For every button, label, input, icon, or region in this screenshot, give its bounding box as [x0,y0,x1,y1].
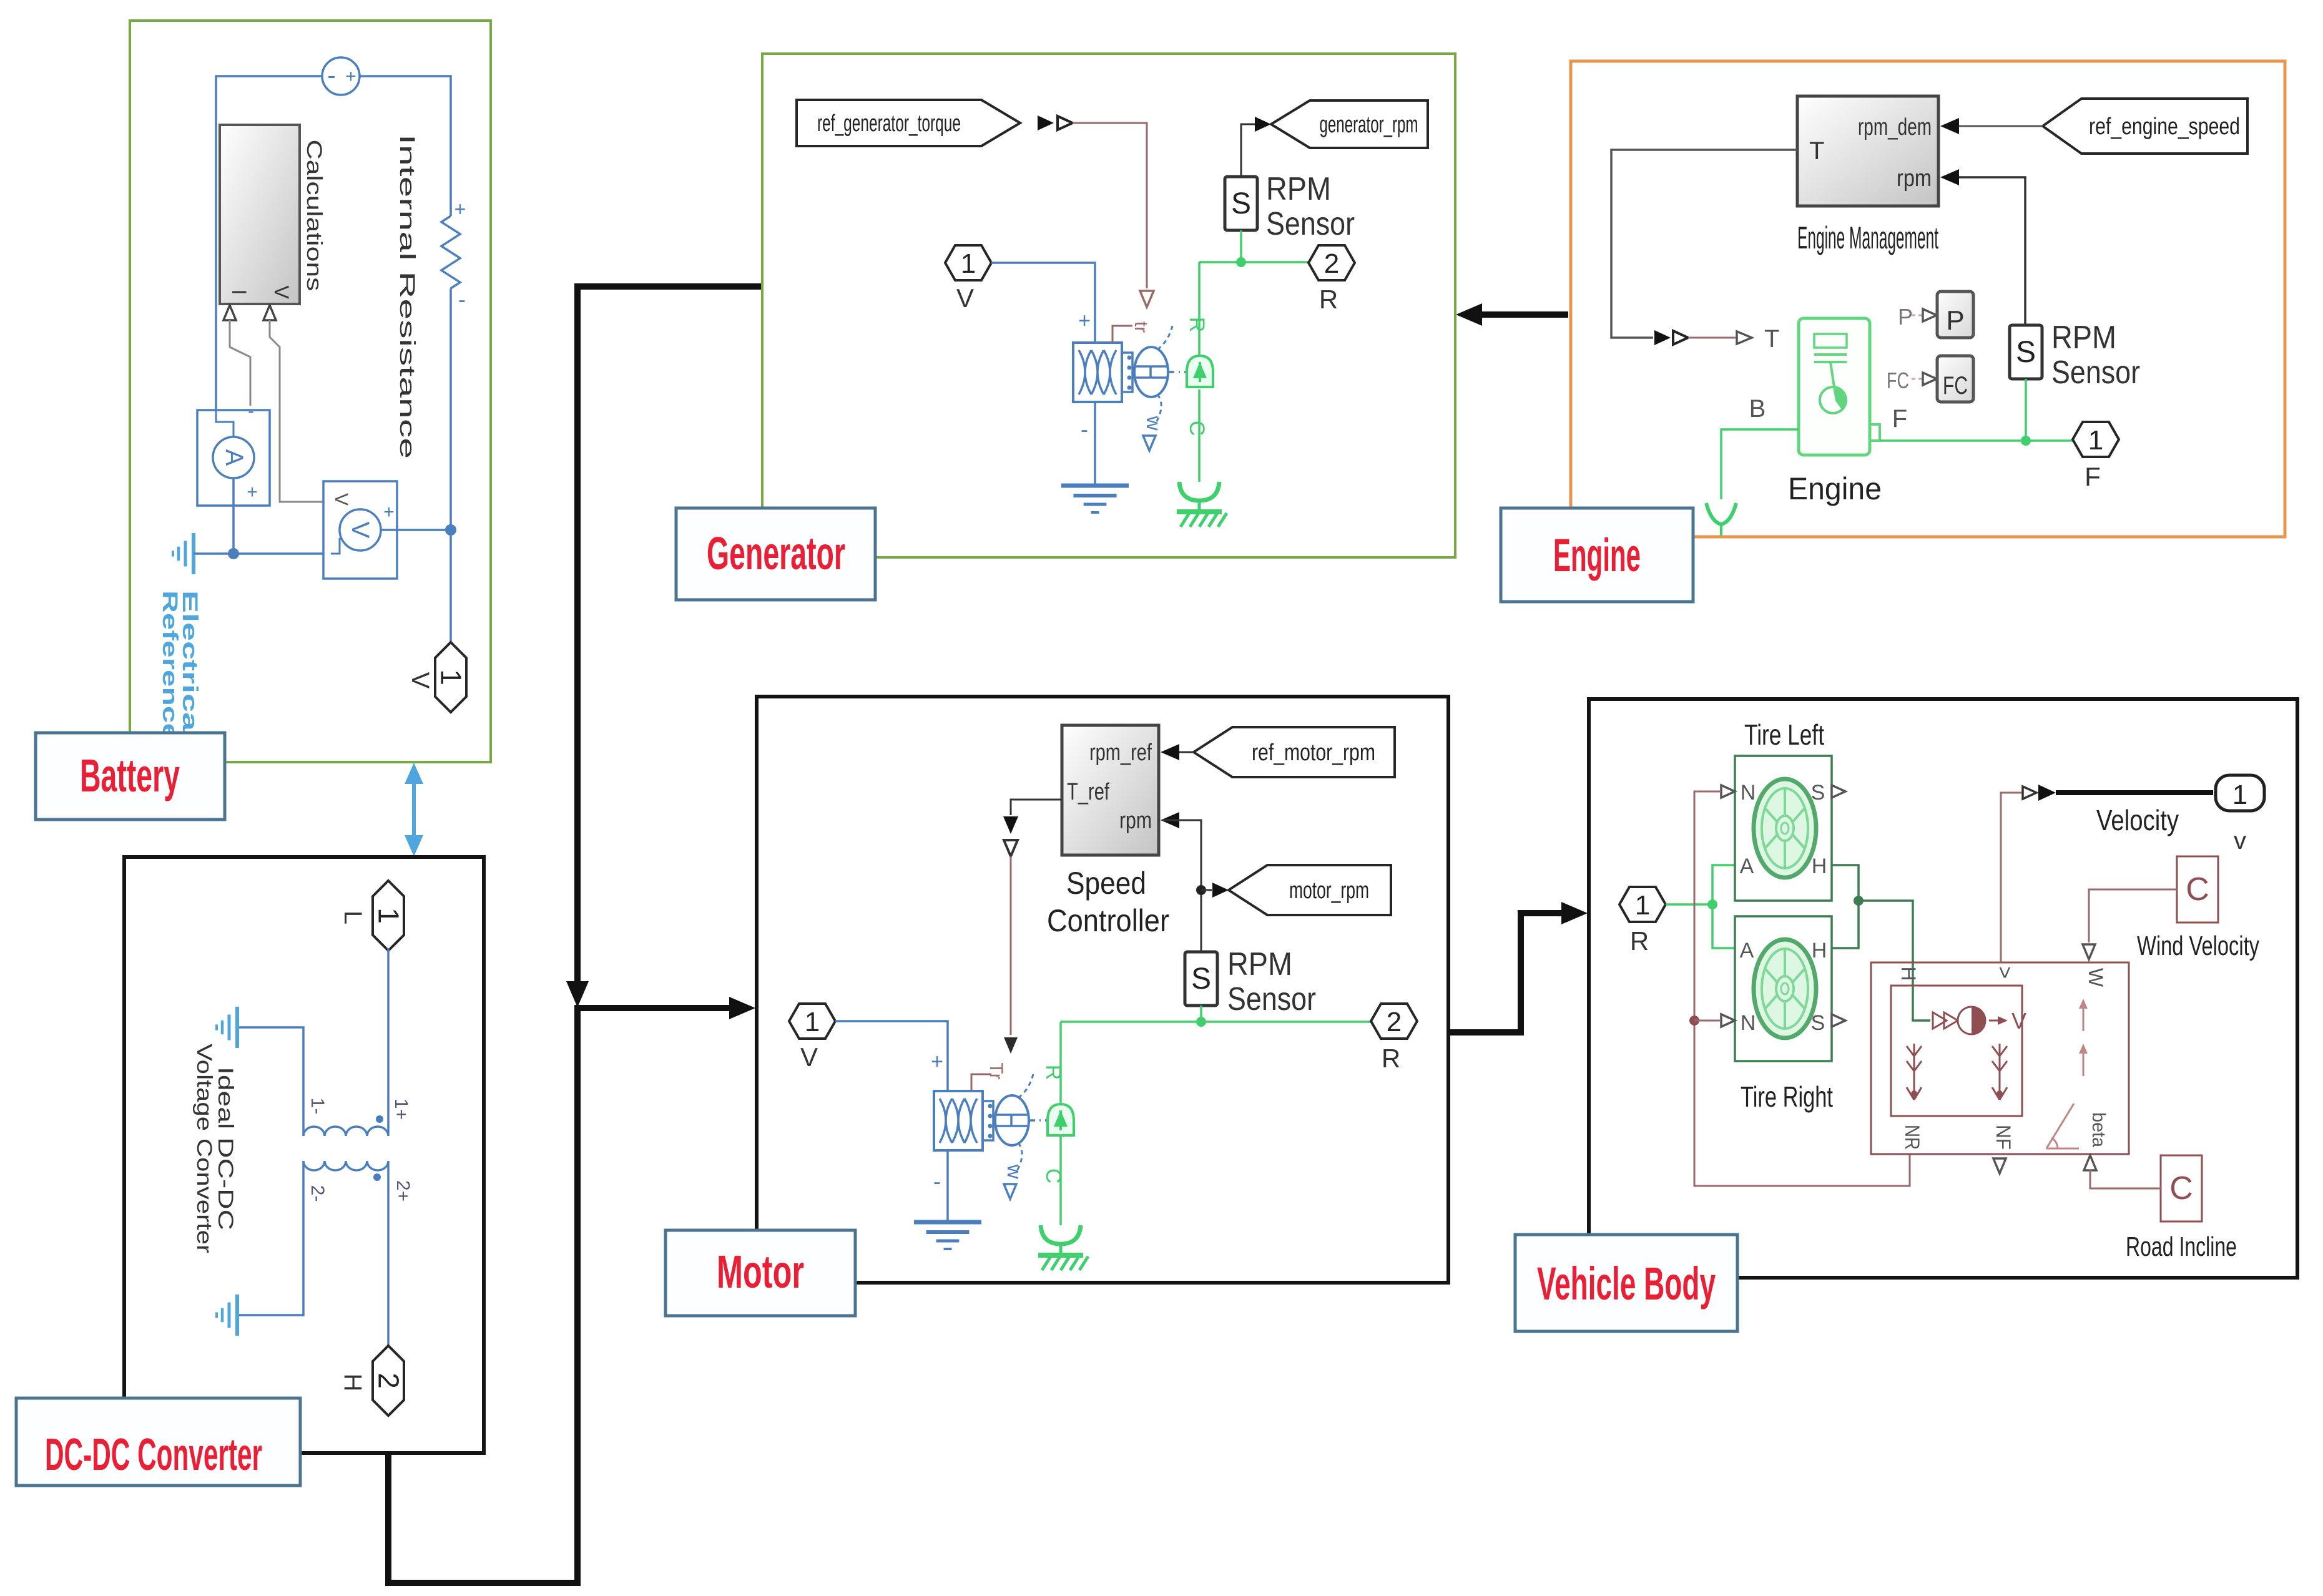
svg-text:S: S [1231,187,1251,220]
port triangle W [2083,944,2095,959]
svg-text:1-: 1- [307,1098,328,1115]
svg-text:Wind Velocity: Wind Velocity [2137,931,2259,961]
svg-text:V: V [331,493,351,506]
port triangles Tire Right [1721,1014,1735,1027]
svg-text:Tire Right: Tire Right [1741,1080,1833,1113]
svg-text:motor_rpm: motor_rpm [1289,878,1369,904]
svg-text:Generator: Generator [707,527,845,579]
wire: battery source left to A-sensor [216,76,323,410]
wire: torque reference to machine (physical) [1010,856,1012,1035]
block: Tire Left [1735,756,1832,901]
wire: Motor to Vehicle Body (thick) [1450,913,1568,1032]
block: Calculations (SOC calculations) [220,125,300,304]
input arrow rpm [1161,812,1179,828]
junction at Tire Right N [1689,1016,1699,1026]
subsystem box: DC-DC Converter [124,857,484,1453]
svg-text:1: 1 [961,248,976,279]
port 2 R of Generator [1309,245,1355,280]
svg-text:P: P [1898,304,1913,330]
subsystem box: Motor [757,697,1448,1283]
svg-text:+: + [931,1050,943,1074]
svg-text:-: - [933,1168,941,1194]
svg-text:Voltage Converter: Voltage Converter [192,1044,216,1253]
junction on F bus [2021,436,2031,446]
subsystem box: Engine [1571,61,2285,537]
wire: velocity output from body V port [2001,793,2025,962]
input arrow rpm [1940,169,1959,185]
source: Road Incline C block [2161,1155,2202,1221]
wire: machine - to ground [1094,402,1096,486]
wire: S sensor to green bus (motor) [1200,1006,1202,1022]
wire: V measurement to Calculations [270,320,329,502]
tag: ref_generator_torque [797,100,1020,146]
label box: Engine [1501,508,1693,602]
svg-text:Tire Left: Tire Left [1744,718,1824,751]
wire: torque ref elbow into machine (motor) [971,1074,991,1091]
port triangle NF (unconnected) [1993,1158,2006,1173]
svg-text:FC: FC [1887,368,1909,393]
source: Wind Velocity C block [2177,856,2218,923]
wire: ref_engine_speed to rpm_dem [1959,125,2043,127]
V arrow inside body block [1989,1020,2003,1022]
junction on green bus (generator) [1236,257,1246,267]
port 1 V of Motor [789,1004,835,1039]
label box: Generator [676,508,875,600]
svg-text:-: - [458,286,466,312]
svg-text:rpm_ref: rpm_ref [1089,740,1152,766]
outport 1 v (Velocity) [2216,775,2264,811]
transformer: Ideal DC-DC Voltage Converter winding 1 [303,1127,388,1136]
port F bracket of engine block [1870,424,1880,441]
svg-text:DC-DC Converter: DC-DC Converter [45,1430,262,1480]
junction dot on rpm wire [1196,885,1206,895]
svg-text:N: N [1741,1011,1756,1035]
wire: winding1- to upper ground [237,1027,303,1136]
beta angle symbol [2046,1148,2079,1150]
svg-text:R: R [1382,1044,1400,1073]
svg-text:1: 1 [435,669,467,685]
svg-text:2: 2 [1387,1007,1402,1037]
ammeter block A (current sensor) [197,410,270,506]
svg-text:1: 1 [372,908,405,924]
svg-text:ref_engine_speed: ref_engine_speed [2089,114,2240,140]
svg-text:C: C [1185,421,1209,436]
block: Engine Management [1797,96,1938,206]
svg-text:Reference: Reference [158,590,182,740]
green bus: machine to port 2 R (motor) [1061,1021,1371,1023]
wire: T loop physical segment [1688,337,1736,339]
svg-text:Controller: Controller [1047,903,1169,938]
svg-text:Engine: Engine [1553,529,1641,581]
svg-text:Speed: Speed [1066,866,1146,901]
sensor: RPM Sensor S block (generator) [1225,177,1257,230]
wire: road incline to beta port [2090,1170,2161,1188]
wire: rotor port to green bus [1198,262,1201,356]
input arrow rpm_dem [1940,118,1959,134]
wire: S sensor to F shaft bus [2025,379,2027,441]
subsystem box: Generator [762,54,1455,557]
wire: wind velocity to W port [2089,889,2177,942]
svg-text:RPM: RPM [1266,171,1331,207]
label box: Motor [665,1230,855,1316]
block: Engine (piston icon) [1799,318,1870,455]
wire: Engine Management T output loop [1611,150,1797,338]
ground: DC-DC upper reference [235,1007,239,1048]
wire: rpm sensor to generator_rpm tag [1241,124,1255,177]
svg-text:Velocity: Velocity [2096,804,2179,836]
CG symbol inside body block [1933,1012,1947,1029]
svg-text:tr: tr [1131,321,1151,333]
wire: case port to mech ground (motor) [1059,1135,1062,1225]
svg-text:W: W [2085,968,2107,987]
svg-text:ref_motor_rpm: ref_motor_rpm [1252,740,1375,766]
svg-text:V: V [800,1042,818,1072]
wire: Tire Left H to body H [1832,865,1859,948]
wire: torque ref elbow into machine [1112,326,1132,343]
sensor: RPM Sensor S block (engine) [2010,325,2042,379]
port 1 F of Engine [2073,422,2119,457]
wire: Generator output bus (thick) down to Motor input [577,286,762,987]
svg-text:V: V [346,522,374,539]
svg-text:rpm: rpm [1119,808,1152,834]
transformer winding 2 [303,1161,388,1170]
wire: ref_motor_rpm to rpm_ref [1179,751,1194,753]
svg-text:A: A [1740,939,1754,962]
svg-text:C: C [2186,871,2209,908]
svg-text:R: R [1630,926,1649,956]
svg-text:Battery: Battery [80,750,180,801]
port triangle: Calculations I input [223,305,236,320]
wire: battery source right to internal resistance [359,76,451,216]
svg-text:A: A [220,449,248,466]
wire: rpm feedback from sensor [1959,177,2025,325]
wire: machine - to ground (motor) [946,1150,949,1222]
arrowhead pair at ref_generator_torque [1038,115,1054,130]
wire: port R to axle junction [1666,903,1712,906]
svg-text:H: H [1812,854,1827,878]
svg-text:>: > [1993,966,2016,979]
svg-text:-: - [248,401,254,421]
wire: ammeter to ground rail [232,478,235,554]
wire: sensor S to green bus [1240,230,1242,262]
block: Tire Right [1735,916,1832,1061]
wire: node to port 1 [449,530,452,644]
svg-text:V: V [406,672,434,689]
port triangles Tire Left [1721,785,1735,798]
electrical machine: motor [934,1091,983,1150]
svg-text:1: 1 [805,1007,820,1037]
ground: generator mechanical reference [1179,482,1219,501]
ground: motor mechanical reference [1041,1225,1081,1244]
svg-text:1: 1 [2088,425,2103,456]
wire: I measurement to Calculations [230,320,250,406]
ground: motor electrical [914,1220,981,1225]
svg-text:H: H [1812,939,1827,962]
wire: Battery to DC-DC double arrow [412,776,416,845]
svg-text:2+: 2+ [393,1180,413,1202]
svg-text:w: w [1142,415,1165,431]
port 1 V of Battery [435,642,466,712]
svg-text:S: S [1811,781,1825,805]
svg-text:A: A [1740,854,1754,878]
ground: Electrical Reference [192,533,195,574]
svg-text:+: + [247,482,258,502]
svg-text:V: V [270,285,293,299]
ground: DC-DC lower reference [235,1295,239,1336]
svg-text:V: V [956,283,974,313]
label box: DC-DC Converter [16,1398,300,1486]
svg-text:Sensor: Sensor [1266,206,1355,242]
wire: junction to motor_rpm tag [1201,889,1212,891]
wire: port V to machine + [991,263,1095,343]
voltage source V1 (battery cell circle) [322,57,360,95]
wire: winding2+ to port H [387,1161,390,1348]
svg-text:Calculations: Calculations [302,140,326,291]
svg-text:1+: 1+ [391,1099,411,1120]
svg-text:S: S [2016,336,2036,369]
svg-text:Motor: Motor [717,1246,804,1298]
wire: case port to mech ground [1198,389,1201,482]
voltmeter block V (voltage sensor) [323,481,397,579]
svg-text:I: I [228,290,250,295]
svg-text:H: H [339,1374,366,1392]
wire: Engine to Generator (thick arrow) [1476,311,1568,318]
port 1 L of DC-DC [373,881,404,951]
svg-text:R: R [1185,317,1209,333]
svg-text:Sensor: Sensor [1227,981,1316,1017]
svg-text:C: C [2169,1170,2193,1207]
input arrow rpm_ref [1161,744,1179,760]
svg-text:RPM: RPM [2051,320,2116,356]
svg-text:F: F [1892,405,1907,433]
svg-text:+: + [345,66,356,87]
port triangle beta [2084,1155,2096,1170]
svg-text:-: - [327,62,335,89]
svg-text:rpm: rpm [1897,165,1932,192]
wire: S to junction to rpm input [1162,820,1201,952]
svg-text:T_ref: T_ref [1067,779,1109,805]
svg-text:L: L [339,911,366,924]
svg-text:T: T [1809,137,1824,165]
tag: ref_engine_speed [2043,99,2247,154]
wire: winding2- to lower ground [237,1161,303,1315]
svg-text:S: S [1811,1011,1825,1035]
svg-text:S: S [1191,962,1211,996]
wire: T_ref output [1011,800,1062,815]
svg-text:Internal Resistance: Internal Resistance [395,134,419,459]
svg-text:-: - [1081,416,1088,442]
svg-text:Vehicle Body: Vehicle Body [1537,1258,1716,1310]
arrow: B to reference (down) [1706,503,1736,524]
wire: port V to machine + [835,1021,948,1091]
svg-text:T: T [1764,325,1779,353]
sensor: RPM Sensor S block (motor) [1185,952,1217,1006]
wire: voltmeter + to output node [381,529,451,531]
svg-text:+: + [1078,309,1091,333]
port marker T of engine [1737,331,1752,344]
svg-text:2: 2 [372,1373,405,1389]
svg-text:NR: NR [1901,1125,1923,1150]
junction node at resistor/voltmeter [445,524,456,536]
tag: generator_rpm [1271,100,1428,148]
electrical machine: generator [1073,343,1122,402]
tag: motor_rpm [1229,865,1391,915]
svg-text:V: V [2011,1008,2026,1034]
svg-text:2: 2 [1324,248,1339,279]
wire: DC-DC output loop (thick) to Motor [388,1008,734,1583]
svg-text:v: v [2234,827,2246,854]
svg-text:Road Incline: Road Incline [2126,1231,2237,1262]
subsystem box: Vehicle Body [1589,699,2297,1278]
svg-text:w: w [1003,1163,1026,1179]
wire: torque reference (physical signal) [1073,123,1147,288]
svg-text:Tr: Tr [986,1062,1006,1079]
svg-text:FC: FC [1943,372,1968,399]
svg-text:ref_generator_torque: ref_generator_torque [817,110,961,137]
svg-text:generator_rpm: generator_rpm [1320,112,1418,138]
svg-text:beta: beta [2088,1112,2109,1147]
wire: velocity thick line to outport [2056,790,2213,795]
svg-text:Ideal DC-DC: Ideal DC-DC [214,1067,237,1230]
svg-text:2-: 2- [307,1185,328,1202]
port 2 R of Motor [1371,1004,1417,1039]
label box: Vehicle Body [1515,1235,1737,1331]
wire: axle to Tire Right A [1712,904,1737,948]
svg-text:1: 1 [2232,780,2247,810]
svg-text:RPM: RPM [1227,946,1292,982]
port 2 H of DC-DC [373,1346,404,1416]
junction node on ground rail [228,548,239,559]
svg-text:Engine Management: Engine Management [1797,220,1938,255]
svg-text:H: H [1897,966,1920,981]
label box: Battery [36,733,225,820]
wire: engine B port [1721,429,1799,499]
svg-text:+: + [454,198,466,220]
inner block rect [1891,986,2022,1116]
wire: engine F to port 1 F [1880,439,2073,442]
wire: resistor to output node [449,288,452,530]
wire: N maroon loop from NR to tires [1694,791,1910,1186]
port 1 V of Generator [945,245,991,280]
wire: port L to winding 1 [387,948,390,1135]
svg-text:R: R [1319,285,1338,314]
wire: ground rail [194,552,331,555]
svg-text:Sensor: Sensor [2051,355,2140,391]
port 1 R of Vehicle Body [1619,887,1666,922]
wire: axle to Tire Left A [1712,865,1737,904]
svg-text:rpm_dem: rpm_dem [1858,114,1932,140]
svg-text:N: N [1741,781,1756,805]
subsystem box: Battery [130,21,491,762]
tag: ref_motor_rpm [1194,727,1395,777]
svg-text:1: 1 [1635,890,1650,921]
junction on green bus (motor) [1196,1017,1206,1027]
block: Speed Controller [1062,725,1159,855]
wire: rotor port to green bus (motor) [1059,1022,1062,1105]
svg-text:B: B [1749,395,1766,423]
svg-text:NF: NF [1992,1125,2015,1150]
bush arrows (weight) inside body block [1913,1044,1915,1089]
arrowhead pair on T loop [1654,330,1671,345]
block: Vehicle Body dynamics (outer) [1871,962,2129,1154]
svg-text:F: F [2085,462,2101,491]
port triangle: Calculations V input [263,305,276,320]
wire: green bus to port 2 R [1199,261,1309,263]
svg-text:P: P [1946,305,1964,336]
svg-text:+: + [383,502,395,522]
ground: generator electrical [1061,484,1129,488]
svg-text:Engine: Engine [1788,471,1882,506]
